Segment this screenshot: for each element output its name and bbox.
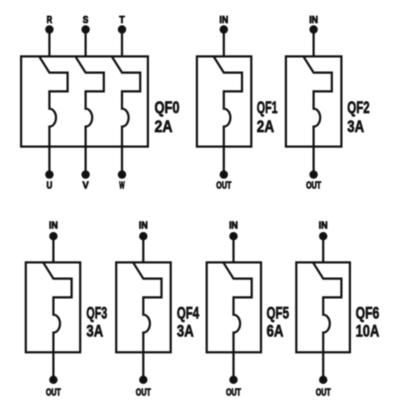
wire IN to QF6 (322, 236, 324, 262)
terminal U dot (45, 170, 53, 178)
svg-text:IN: IN (319, 221, 328, 232)
node OUT dot (QF3) (49, 376, 57, 384)
wire QF5 to OUT (232, 352, 234, 380)
breaker QF2 box (286, 56, 342, 146)
svg-text:W: W (119, 180, 125, 191)
svg-text:IN: IN (229, 221, 238, 232)
wire QF4 to OUT (142, 352, 144, 380)
svg-text:3A: 3A (347, 117, 364, 136)
node OUT dot (QF6) (319, 376, 327, 384)
wire IN to QF3 (52, 236, 54, 262)
svg-text:OUT: OUT (306, 180, 321, 191)
svg-text:R: R (47, 15, 53, 26)
svg-text:QF3: QF3 (86, 303, 107, 322)
breaker QF6 contact (313, 262, 341, 352)
wire QF2 to OUT (313, 147, 315, 175)
node IN dot (QF5) (229, 232, 237, 240)
svg-text:QF5: QF5 (267, 303, 290, 322)
wire T to QF0 (121, 30, 123, 57)
node OUT dot (QF1) (220, 170, 228, 178)
svg-text:OUT: OUT (316, 387, 331, 398)
breaker QF4 box (116, 262, 171, 352)
terminal T dot (118, 25, 126, 33)
breaker QF3 box (26, 262, 80, 352)
terminal R dot (45, 25, 53, 33)
wire S to QF0 (84, 30, 86, 57)
node IN dot (QF6) (319, 232, 327, 240)
svg-text:QF2: QF2 (347, 98, 369, 117)
svg-text:QF6: QF6 (356, 303, 380, 322)
svg-text:OUT: OUT (216, 180, 231, 191)
svg-text:2A: 2A (155, 117, 173, 136)
svg-text:T: T (119, 15, 125, 26)
svg-text:IN: IN (139, 221, 148, 232)
breaker QF0 pole R-U contact (39, 56, 67, 146)
node IN dot (QF3) (49, 232, 57, 240)
node OUT dot (QF2) (309, 170, 317, 178)
svg-text:OUT: OUT (226, 387, 241, 398)
breaker QF5 box (207, 262, 261, 352)
svg-text:2A: 2A (257, 117, 274, 136)
node IN dot (QF1) (220, 25, 228, 33)
breaker QF6 box (296, 262, 350, 352)
svg-text:QF4: QF4 (177, 303, 200, 322)
svg-text:QF0: QF0 (155, 98, 180, 117)
wire QF0 to U (48, 147, 50, 175)
svg-text:OUT: OUT (136, 387, 151, 398)
svg-text:IN: IN (309, 15, 318, 26)
wire QF3 to OUT (52, 352, 54, 380)
breaker QF0 pole S-V contact (75, 56, 103, 146)
svg-text:IN: IN (219, 15, 228, 26)
svg-text:3A: 3A (86, 322, 103, 341)
svg-text:U: U (47, 180, 53, 191)
wire IN to QF1 (223, 30, 225, 57)
breaker QF1 box (197, 56, 251, 146)
svg-text:3A: 3A (177, 322, 194, 341)
wire IN to QF2 (313, 30, 315, 57)
svg-text:V: V (83, 180, 89, 191)
svg-text:10A: 10A (356, 322, 380, 341)
breaker QF3 contact (43, 262, 71, 352)
wire QF1 to OUT (223, 147, 225, 175)
breaker QF1 contact (214, 56, 242, 146)
svg-text:S: S (83, 15, 89, 26)
wire QF0 to V (84, 147, 86, 175)
node IN dot (QF2) (309, 25, 317, 33)
node OUT dot (QF4) (139, 376, 147, 384)
node OUT dot (QF5) (229, 376, 237, 384)
wire QF0 to W (121, 147, 123, 175)
breaker QF0 pole T-W contact (112, 56, 140, 146)
terminal S dot (81, 25, 89, 33)
terminal V dot (81, 170, 89, 178)
wire R to QF0 (48, 30, 50, 57)
wire IN to QF5 (232, 236, 234, 262)
svg-text:IN: IN (49, 221, 58, 232)
terminal W dot (118, 170, 126, 178)
svg-text:QF1: QF1 (257, 98, 278, 117)
breaker QF2 contact (303, 56, 331, 146)
breaker QF4 contact (133, 262, 161, 352)
wire IN to QF4 (142, 236, 144, 262)
node IN dot (QF4) (139, 232, 147, 240)
breaker QF5 contact (223, 262, 251, 352)
svg-text:6A: 6A (267, 322, 284, 341)
breaker QF0 box (21, 56, 148, 146)
svg-text:OUT: OUT (46, 387, 61, 398)
wire QF6 to OUT (322, 352, 324, 380)
